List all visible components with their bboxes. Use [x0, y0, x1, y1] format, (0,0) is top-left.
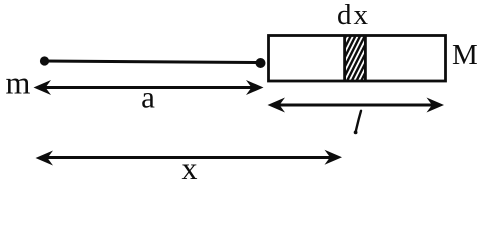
svg-text:m: m: [6, 65, 31, 101]
hatched element dx strip: [322, 32, 386, 84]
dimension arrow l: [268, 98, 445, 113]
svg-text:a: a: [141, 80, 155, 115]
svg-text:M: M: [452, 39, 478, 71]
dimension arrow a: [34, 80, 264, 95]
wire rod connecting m to bar: [44, 61, 259, 63]
dimension arrow x: [36, 150, 343, 166]
bar M (rod rectangle): [269, 36, 446, 82]
label l: [354, 111, 361, 135]
svg-text:dx: dx: [337, 0, 370, 31]
node point mass m: [40, 56, 49, 65]
node junction at bar left end: [256, 58, 266, 68]
svg-text:x: x: [182, 150, 198, 186]
